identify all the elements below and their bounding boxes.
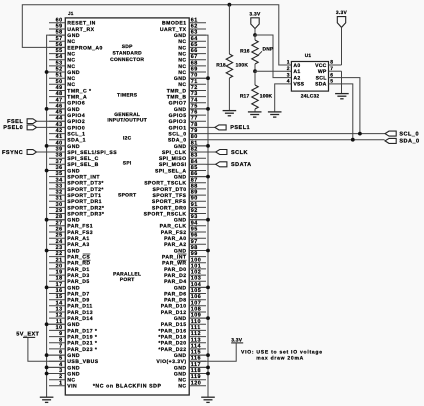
svg-text:PAR_D8: PAR_D8	[164, 298, 186, 304]
resistor R18 100K	[216, 5, 248, 111]
U1 left pin names A0 A1 A2 VSS	[293, 63, 304, 88]
svg-text:TMR_A: TMR_A	[67, 95, 87, 101]
svg-text:STANDARD: STANDARD	[112, 50, 142, 56]
svg-text:INPUT/OUTPUT: INPUT/OUTPUT	[107, 118, 147, 124]
svg-text:22: 22	[56, 251, 63, 257]
svg-text:100: 100	[191, 257, 202, 263]
svg-text:NC: NC	[178, 378, 186, 384]
svg-text:NC: NC	[178, 58, 186, 64]
svg-text:89: 89	[191, 190, 198, 196]
svg-text:GENERAL: GENERAL	[114, 112, 140, 118]
svg-text:1: 1	[59, 380, 63, 386]
wire: FSYNC to SPI_SEL1	[37, 151, 66, 153]
svg-text:SPORT_DT1: SPORT_DT1	[67, 193, 101, 199]
svg-text:PAR_D1: PAR_D1	[67, 267, 89, 273]
svg-text:85: 85	[191, 165, 198, 171]
svg-text:3.3V: 3.3V	[249, 11, 261, 17]
svg-text:R18: R18	[216, 63, 226, 69]
svg-text:PORT: PORT	[120, 277, 135, 283]
wire: EEPROM_A0 net (J1 pin 56 to U1 A0), with R18 tap	[22, 5, 291, 65]
svg-text:GPIO0: GPIO0	[67, 125, 85, 131]
svg-text:PAR_D11: PAR_D11	[67, 304, 92, 310]
wire: 5V_EXT to USB_VBUS (pin 5)	[28, 337, 65, 361]
svg-text:R17: R17	[240, 94, 250, 100]
svg-text:I2C: I2C	[123, 135, 132, 141]
svg-text:NC: NC	[178, 82, 186, 88]
svg-text:51: 51	[56, 73, 63, 79]
connector SCL_0	[385, 131, 396, 136]
svg-text:U1: U1	[305, 53, 312, 59]
svg-text:EEPROM_A0: EEPROM_A0	[67, 45, 102, 51]
svg-text:*PAR_D16: *PAR_D16	[158, 328, 186, 334]
svg-text:PAR_D21 *: PAR_D21 *	[67, 341, 97, 347]
svg-text:A0: A0	[293, 63, 300, 69]
svg-text:100K: 100K	[236, 63, 249, 69]
svg-text:UART_TX: UART_TX	[160, 27, 187, 33]
svg-text:GND: GND	[174, 365, 187, 371]
net label 5V_EXT	[16, 331, 39, 337]
svg-text:USB_VBUS: USB_VBUS	[67, 359, 98, 365]
svg-text:PAR_D0: PAR_D0	[164, 267, 186, 273]
note: VIO usage text	[241, 350, 323, 362]
svg-text:32: 32	[56, 190, 63, 196]
wire: U1 VSS to ground	[275, 84, 292, 112]
svg-text:J1: J1	[68, 11, 74, 16]
svg-text:PAR_D3: PAR_D3	[67, 273, 89, 279]
svg-text:PAR_D17 *: PAR_D17 *	[67, 328, 97, 334]
svg-text:SPI_SEL_C: SPI_SEL_C	[67, 156, 99, 162]
svg-text:GND: GND	[67, 144, 80, 150]
svg-text:SPORT_DR1: SPORT_DR1	[67, 199, 102, 205]
svg-text:R16: R16	[240, 49, 250, 55]
svg-text:66: 66	[191, 48, 198, 54]
svg-text:NC: NC	[67, 58, 75, 64]
svg-text:SPI_SEL_B: SPI_SEL_B	[67, 162, 99, 168]
svg-text:PAR_D15: PAR_D15	[161, 322, 187, 328]
junction: R18 top on EEPROM_A0 net	[228, 3, 232, 7]
J1 section label PARALLEL PORT	[113, 271, 141, 283]
svg-text:26: 26	[56, 227, 63, 233]
svg-text:PAR_D14: PAR_D14	[67, 316, 93, 322]
net label 3.3V (VIO)	[231, 338, 243, 344]
ground: U1 WP	[335, 94, 349, 99]
svg-text:49: 49	[56, 85, 63, 91]
J1 right pin numbers 61..120	[191, 17, 202, 386]
svg-text:45: 45	[56, 110, 63, 116]
svg-text:42: 42	[56, 128, 63, 134]
svg-text:PAR_D5: PAR_D5	[67, 279, 89, 285]
svg-text:SDA_0: SDA_0	[399, 139, 419, 145]
svg-text:21: 21	[56, 257, 63, 263]
J1 section label GENERAL INPUT/OUTPUT	[107, 112, 147, 124]
resistor R17 100K	[240, 71, 273, 112]
connector SDA_0	[385, 138, 396, 143]
svg-text:SDA_1: SDA_1	[67, 138, 86, 144]
svg-text:NC: NC	[178, 64, 186, 70]
J1 section label SDP STANDARD CONNECTOR	[110, 44, 144, 63]
svg-text:103: 103	[191, 276, 202, 282]
svg-text:GPIO5: GPIO5	[169, 113, 187, 119]
power 3.3V (U1 VCC)	[336, 10, 348, 65]
connector FSEL	[27, 119, 36, 124]
svg-text:9: 9	[59, 331, 63, 337]
svg-text:GPIO2: GPIO2	[67, 119, 85, 125]
svg-text:84: 84	[191, 159, 198, 165]
ground: R18	[223, 111, 237, 116]
svg-text:BMODE1: BMODE1	[162, 21, 187, 27]
power 3.3V (R16 pull-up)	[249, 11, 261, 35]
wire: node to U1 A2	[255, 35, 291, 78]
U1 left pin numbers 1-4	[287, 60, 290, 85]
svg-text:PAR_FS1: PAR_FS1	[67, 224, 93, 230]
connector FSYNC	[27, 150, 36, 155]
svg-text:15: 15	[56, 294, 63, 300]
svg-text:PSEL0: PSEL0	[3, 125, 23, 131]
svg-text:SPORT_INT: SPORT_INT	[67, 175, 100, 181]
svg-text:SPORT_DT2*: SPORT_DT2*	[67, 187, 104, 193]
svg-text:WP: WP	[318, 69, 327, 75]
svg-text:114: 114	[191, 343, 201, 349]
svg-text:25: 25	[56, 233, 63, 239]
svg-text:24: 24	[56, 239, 63, 245]
svg-text:GND: GND	[174, 175, 187, 181]
svg-text:NC: NC	[178, 39, 186, 45]
svg-text:GND: GND	[174, 285, 187, 291]
svg-text:VCC: VCC	[315, 63, 327, 69]
svg-text:SCL_1: SCL_1	[67, 132, 85, 138]
svg-text:95: 95	[191, 227, 198, 233]
svg-text:91: 91	[191, 202, 198, 208]
svg-text:74: 74	[191, 97, 198, 103]
junctions on right GND bus	[189, 76, 210, 375]
svg-text:48: 48	[56, 91, 63, 97]
junctions on left GND bus	[45, 70, 66, 375]
wire: SPI_MOSI to SDATA	[206, 163, 216, 165]
svg-text:78: 78	[191, 122, 198, 128]
svg-text:NC: NC	[67, 378, 75, 384]
svg-text:TIMERS: TIMERS	[117, 92, 138, 98]
junction: 3.3V / R16 / A2 node	[253, 33, 257, 37]
svg-text:106: 106	[191, 294, 202, 300]
wire: SCL_0 net (J1 to connector)	[206, 133, 385, 135]
svg-text:30: 30	[56, 202, 63, 208]
svg-text:PAR_D4: PAR_D4	[164, 279, 186, 285]
svg-text:27: 27	[56, 220, 63, 226]
junction: SDA vertical on SDA_0 net	[351, 138, 355, 142]
svg-text:SPI_MOSI: SPI_MOSI	[159, 162, 187, 168]
svg-text:69: 69	[191, 67, 198, 73]
svg-text:GND: GND	[174, 107, 187, 113]
J1 right pin names	[144, 21, 187, 390]
svg-text:PAR_D12: PAR_D12	[161, 310, 187, 316]
wire: SDA_0 net (J1 to connector)	[206, 139, 385, 141]
svg-text:76: 76	[191, 110, 198, 116]
svg-text:SPI_MISO: SPI_MISO	[159, 156, 187, 162]
wire: right GND bus	[189, 35, 208, 397]
svg-text:GND: GND	[67, 285, 80, 291]
svg-text:*PAR_D18: *PAR_D18	[158, 335, 186, 341]
svg-text:60: 60	[56, 17, 63, 23]
svg-text:PAR_D7: PAR_D7	[67, 291, 89, 297]
svg-text:PAR_D2: PAR_D2	[164, 273, 186, 279]
wire: GPIO1 to PSEL1	[206, 126, 215, 128]
wire: node to U1 A1	[255, 70, 291, 72]
svg-text:73: 73	[191, 91, 198, 97]
svg-text:54: 54	[56, 54, 63, 60]
wire: U1 SDA down to SDA_0 net	[342, 84, 353, 140]
svg-text:SPI: SPI	[123, 161, 132, 167]
svg-text:GND: GND	[174, 248, 187, 254]
svg-text:102: 102	[191, 270, 202, 276]
svg-text:97: 97	[191, 239, 198, 245]
svg-text:GND: GND	[174, 353, 187, 359]
svg-text:8: 8	[59, 337, 63, 343]
svg-text:NC: NC	[67, 76, 75, 82]
svg-text:19: 19	[56, 270, 63, 276]
svg-text:2: 2	[287, 66, 290, 72]
svg-text:67: 67	[191, 54, 198, 60]
svg-text:112: 112	[191, 331, 201, 337]
svg-text:A2: A2	[293, 75, 300, 81]
wire: U1 SCL down to SCL_0 net	[342, 78, 360, 134]
svg-text:107: 107	[191, 300, 202, 306]
svg-text:119: 119	[191, 374, 201, 380]
svg-text:*PAR_D22: *PAR_D22	[158, 347, 186, 353]
svg-text:SPORT_TFS: SPORT_TFS	[152, 193, 186, 199]
svg-text:SPI_CLK: SPI_CLK	[162, 150, 187, 156]
connector SDATA	[216, 162, 227, 167]
ground: right bus	[201, 397, 215, 402]
svg-text:GND: GND	[67, 353, 80, 359]
svg-text:FSEL: FSEL	[7, 119, 23, 125]
svg-text:PAR_D9: PAR_D9	[67, 298, 89, 304]
svg-text:77: 77	[191, 116, 198, 122]
wire: U1 WP to ground	[341, 71, 343, 93]
svg-text:2: 2	[59, 374, 63, 380]
svg-text:GND: GND	[67, 33, 80, 39]
svg-text:65: 65	[191, 42, 198, 48]
svg-text:*NC on BLACKFIN SDP: *NC on BLACKFIN SDP	[93, 383, 162, 389]
svg-text:FSYNC: FSYNC	[2, 150, 23, 156]
svg-text:SPORT_RSCLK: SPORT_RSCLK	[144, 211, 187, 217]
svg-text:71: 71	[191, 79, 198, 85]
svg-text:SPORT_DT3*: SPORT_DT3*	[67, 181, 104, 187]
svg-text:GND: GND	[174, 371, 187, 377]
svg-text:PAR_INT: PAR_INT	[162, 255, 187, 261]
svg-text:12: 12	[56, 313, 63, 319]
svg-text:34: 34	[56, 177, 63, 183]
svg-text:37: 37	[56, 159, 63, 165]
svg-text:59: 59	[56, 24, 63, 30]
svg-text:SDP: SDP	[122, 44, 133, 50]
svg-text:SPORT_TSCLK: SPORT_TSCLK	[144, 181, 186, 187]
svg-text:A1: A1	[293, 69, 300, 75]
svg-text:GND: GND	[67, 322, 80, 328]
svg-text:VIO(+3.3V): VIO(+3.3V)	[156, 359, 186, 365]
resistor R16 (DNP)	[240, 35, 274, 71]
svg-text:16: 16	[56, 288, 63, 294]
svg-text:SDA_0: SDA_0	[168, 138, 187, 144]
svg-text:SPORT: SPORT	[118, 192, 136, 198]
svg-text:14: 14	[56, 300, 63, 306]
svg-text:55: 55	[56, 48, 63, 54]
svg-text:GND: GND	[67, 168, 80, 174]
svg-text:50: 50	[56, 79, 63, 85]
svg-text:68: 68	[191, 60, 198, 66]
svg-text:PAR_A1: PAR_A1	[67, 236, 89, 242]
U1 right pin stubs	[329, 65, 342, 84]
svg-text:72: 72	[191, 85, 198, 91]
svg-text:NC: NC	[67, 64, 75, 70]
svg-text:57: 57	[56, 36, 63, 42]
svg-text:NC: NC	[67, 39, 75, 45]
svg-text:110: 110	[191, 319, 201, 325]
svg-text:64: 64	[191, 36, 198, 42]
svg-text:GND: GND	[174, 33, 187, 39]
connector PSEL0	[27, 125, 36, 130]
svg-text:38: 38	[56, 153, 63, 159]
svg-text:SDATA: SDATA	[231, 162, 252, 168]
svg-text:TMR_B: TMR_B	[167, 95, 187, 101]
svg-text:SCL_0: SCL_0	[399, 131, 419, 137]
ground: R17	[248, 112, 262, 117]
svg-text:80: 80	[191, 134, 198, 140]
svg-text:61: 61	[191, 17, 198, 23]
svg-text:CONNECTOR: CONNECTOR	[110, 57, 144, 63]
svg-text:UART_RX: UART_RX	[67, 27, 94, 33]
svg-text:TMR_D: TMR_D	[167, 88, 187, 94]
svg-text:SCLK: SCLK	[231, 150, 248, 156]
svg-text:PAR_D13: PAR_D13	[67, 310, 93, 316]
svg-text:PAR_D19 *: PAR_D19 *	[67, 335, 97, 341]
svg-text:18: 18	[56, 276, 63, 282]
svg-text:NC: NC	[67, 52, 75, 58]
svg-text:SPI_SEL1/SPI_SS: SPI_SEL1/SPI_SS	[67, 150, 117, 156]
svg-text:PAR_FS2: PAR_FS2	[161, 230, 187, 236]
svg-text:PAR_A2: PAR_A2	[164, 242, 186, 248]
wire: PSEL0 to GPIO0	[37, 126, 66, 128]
svg-text:111: 111	[191, 325, 201, 331]
svg-text:PAR_WR: PAR_WR	[162, 261, 186, 267]
ground: left bus	[40, 397, 54, 402]
svg-text:31: 31	[56, 196, 63, 202]
svg-text:PAR_A0: PAR_A0	[164, 236, 186, 242]
svg-text:33: 33	[56, 183, 63, 189]
svg-text:GND: GND	[67, 70, 80, 76]
svg-text:108: 108	[191, 307, 202, 313]
svg-text:NC: NC	[178, 384, 186, 390]
svg-text:7: 7	[59, 343, 63, 349]
svg-text:GND: GND	[67, 248, 80, 254]
svg-text:GND: GND	[174, 76, 187, 82]
svg-text:max draw 20mA: max draw 20mA	[256, 356, 304, 362]
svg-text:NC: NC	[178, 52, 186, 58]
connector PSEL1	[215, 125, 226, 130]
svg-text:90: 90	[191, 196, 198, 202]
svg-text:GPIO1: GPIO1	[169, 125, 187, 131]
svg-text:20: 20	[56, 263, 63, 269]
svg-text:GND: GND	[174, 144, 187, 150]
svg-text:GND: GND	[67, 371, 80, 377]
svg-text:NC: NC	[67, 82, 75, 88]
svg-text:47: 47	[56, 97, 63, 103]
svg-text:PAR_D23 *: PAR_D23 *	[67, 347, 97, 353]
svg-text:NC: NC	[178, 45, 186, 51]
svg-text:105: 105	[191, 288, 202, 294]
svg-text:SPI_SEL_A: SPI_SEL_A	[155, 168, 187, 174]
svg-text:13: 13	[56, 307, 63, 313]
svg-text:PAR_CLK: PAR_CLK	[160, 224, 187, 230]
svg-text:62: 62	[191, 24, 198, 30]
svg-text:83: 83	[191, 153, 198, 159]
svg-text:TMR_C *: TMR_C *	[67, 88, 91, 94]
svg-text:92: 92	[191, 208, 198, 214]
svg-text:SPORT_RFS: SPORT_RFS	[152, 199, 187, 205]
svg-text:101: 101	[191, 263, 202, 269]
svg-text:82: 82	[191, 147, 198, 153]
svg-text:GND: GND	[174, 316, 187, 322]
svg-text:1: 1	[287, 60, 290, 66]
svg-text:29: 29	[56, 208, 63, 214]
svg-text:SPORT_DR2*: SPORT_DR2*	[67, 205, 104, 211]
svg-text:PARALLEL: PARALLEL	[113, 271, 141, 277]
svg-text:SCL: SCL	[316, 75, 327, 81]
svg-text:PSEL1: PSEL1	[230, 125, 250, 131]
svg-text:SDA: SDA	[315, 82, 327, 88]
svg-text:94: 94	[191, 220, 198, 226]
svg-text:VIN: VIN	[67, 384, 77, 390]
svg-text:PAR_CS: PAR_CS	[67, 255, 90, 261]
svg-text:GND: GND	[174, 218, 187, 224]
svg-text:41: 41	[56, 134, 63, 140]
U1 right pin names VCC WP SCL SDA	[315, 63, 327, 88]
svg-text:SPORT_DT0: SPORT_DT0	[152, 187, 186, 193]
svg-text:GPIO3: GPIO3	[169, 119, 187, 125]
svg-text:VSS: VSS	[293, 82, 304, 88]
svg-text:GPIO7: GPIO7	[169, 101, 187, 107]
svg-text:79: 79	[191, 128, 198, 134]
J1 left pin numbers 60..1	[56, 17, 63, 386]
svg-text:PAR_D10: PAR_D10	[161, 304, 187, 310]
svg-text:5V_EXT: 5V_EXT	[16, 331, 39, 337]
svg-text:53: 53	[56, 60, 63, 66]
svg-text:100K: 100K	[260, 94, 273, 100]
svg-text:GND: GND	[67, 107, 80, 113]
wire: SPI_CLK to SCLK	[206, 151, 216, 153]
svg-text:PAR_D6: PAR_D6	[164, 291, 186, 297]
IC U1 24LC32 body	[291, 62, 328, 92]
junction: SCL vertical on SCL_0 net	[358, 132, 362, 136]
svg-text:GND: GND	[67, 365, 80, 371]
svg-text:99: 99	[191, 251, 198, 257]
svg-text:GPIO4: GPIO4	[67, 113, 85, 119]
connector SCLK	[216, 150, 227, 155]
wire: VIO(+3.3V) pin 116 to 3.3V label	[189, 343, 236, 361]
active-low overbars (PAR_CS, PAR_RD, PAR_INT, PAR_WR)	[83, 254, 187, 260]
svg-text:PAR_RD: PAR_RD	[67, 261, 90, 267]
junction: R16/R17/A1 node	[253, 69, 257, 73]
J1 right pin ticks (pins 61..120)	[189, 23, 206, 386]
svg-text:SCL_0: SCL_0	[168, 132, 186, 138]
svg-text:96: 96	[191, 233, 198, 239]
svg-text:GND: GND	[67, 218, 80, 224]
svg-text:3: 3	[287, 72, 290, 78]
svg-text:3.3V: 3.3V	[336, 10, 348, 16]
svg-text:120: 120	[191, 380, 202, 386]
svg-text:*PAR_D20: *PAR_D20	[158, 341, 186, 347]
U1 right pin numbers 8 7 6 5	[330, 60, 333, 85]
svg-text:87: 87	[191, 177, 198, 183]
